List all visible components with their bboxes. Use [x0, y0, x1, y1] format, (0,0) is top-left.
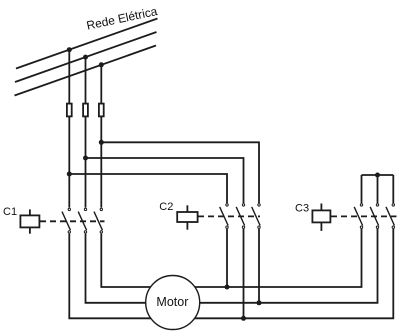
node: branch to C2-1 — [67, 172, 72, 177]
wire: tap from L3 down to contact C1-3 — [100, 65, 102, 208]
node: C2-3 to motor middle line — [257, 300, 262, 305]
wire: branch from node on L3 tap to contact C2-3 — [101, 142, 259, 203]
svg-text:Rede Elétrica: Rede Elétrica — [85, 4, 159, 33]
node: C2-1 to motor top line — [225, 285, 230, 290]
svg-text:C3: C3 — [295, 203, 309, 215]
svg-text:C2: C2 — [159, 201, 173, 213]
wire: star bar above C3 — [362, 174, 394, 176]
wire: C2-3 bottom down to motor middle line — [258, 229, 260, 303]
contact C2-2 — [236, 204, 245, 229]
contact C2-1 — [220, 204, 229, 229]
contact C3-3 — [386, 204, 394, 229]
node: tap on L2 — [83, 55, 88, 60]
mechanical link C2 (dashed) — [198, 215, 260, 217]
wire: C2-1 bottom down to motor top line — [226, 229, 228, 287]
node: C2-2 to motor bottom line — [241, 316, 246, 321]
coil C3 — [312, 204, 330, 231]
coil C1 — [20, 209, 39, 233]
wire: C1-3 bottom to motor top line — [101, 229, 361, 287]
contact C1-1 — [62, 208, 71, 233]
svg-text:Motor: Motor — [156, 295, 188, 309]
wire: tap from L2 down to contact C1-2 — [85, 57, 87, 208]
phase line L1 — [16, 19, 158, 69]
wire: star bar down to C3-1 — [361, 175, 363, 203]
wire: branch from node on L1 tap to contact C2-1 — [69, 174, 227, 203]
node: tap on L1 — [67, 47, 72, 52]
fuse F1 — [67, 104, 72, 117]
node: branch to C2-3 — [99, 140, 104, 145]
wire: branch from node on L2 tap to contact C2-2 — [86, 158, 244, 203]
contact C1-2 — [78, 208, 87, 233]
contact C1-3 — [94, 208, 103, 233]
svg-text:C1: C1 — [3, 206, 17, 218]
node: tap on L3 — [99, 62, 104, 67]
wire: star bar down to C3-3 — [392, 175, 394, 203]
node: branch to C2-2 — [83, 156, 88, 161]
motor M1 — [146, 276, 200, 330]
mechanical link C3 (dashed) — [331, 215, 397, 217]
wire: C2-2 bottom down to motor bottom line — [243, 229, 245, 318]
fuse F3 — [99, 104, 104, 117]
contact C3-1 — [354, 204, 362, 229]
phase line L2 — [15, 32, 157, 82]
wire: C1-2 bottom to motor middle line — [86, 229, 378, 303]
mechanical link C1 (dashed) — [40, 220, 105, 222]
contact C2-3 — [252, 204, 260, 229]
phase line L3 — [15, 46, 157, 96]
wire: star bar down to C3-2 — [377, 175, 379, 203]
wire: tap from L1 down to contact C1-1 — [68, 50, 70, 208]
fuse F2 — [83, 104, 88, 117]
contact C3-2 — [370, 204, 378, 229]
wire: C1-1 bottom to motor bottom line — [69, 229, 393, 318]
node: star point — [375, 173, 380, 178]
coil C2 — [177, 205, 197, 229]
